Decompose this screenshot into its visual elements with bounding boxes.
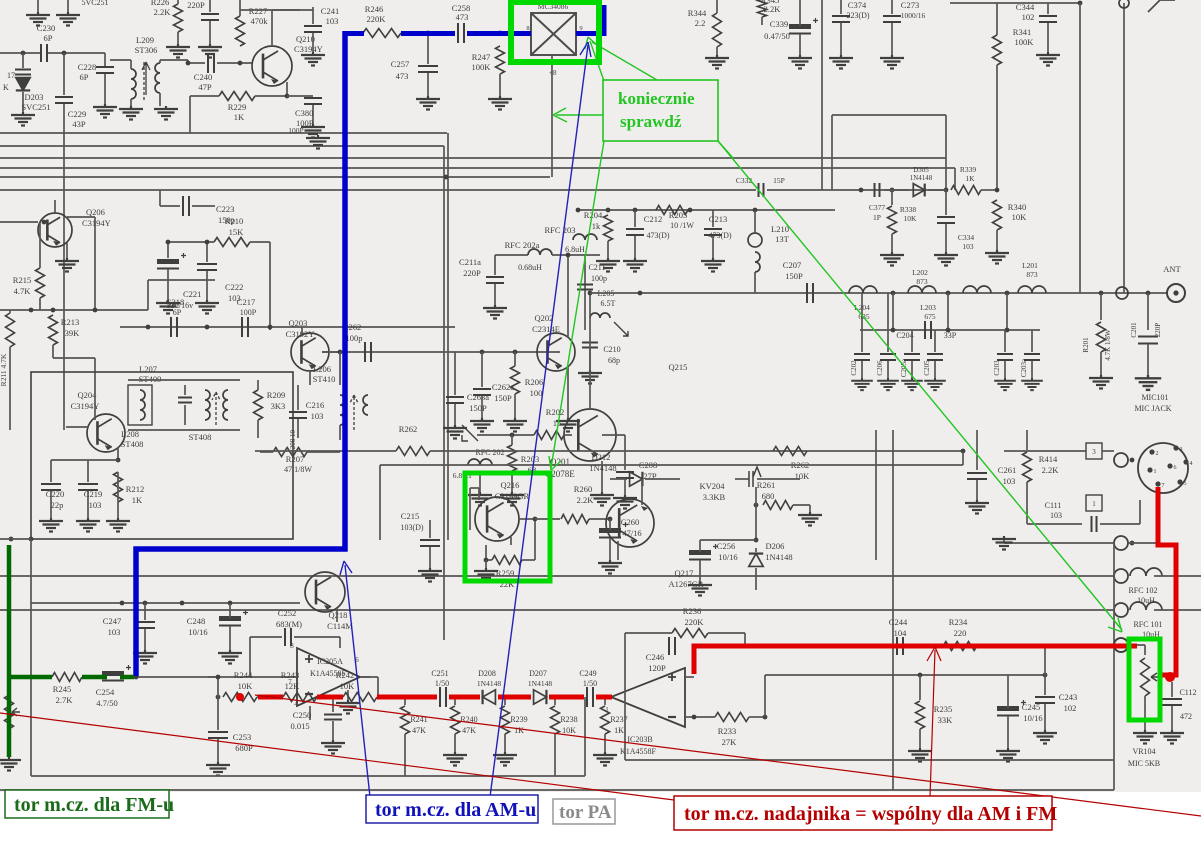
svg-text:473: 473 [396, 71, 409, 81]
junction ring1 [1130, 458, 1135, 463]
wire C256 top [699, 540, 701, 552]
svg-text:1N4148: 1N4148 [589, 463, 616, 473]
svg-text:102: 102 [1064, 703, 1077, 713]
varactor D203 diode [16, 78, 30, 91]
wire C260 down [609, 538, 611, 560]
junction ring2 [1130, 541, 1135, 546]
wire R235 top [919, 675, 921, 700]
inductor L209 primary [131, 69, 136, 99]
svg-text:R261: R261 [757, 480, 775, 490]
wire C257 down [427, 73, 429, 96]
label box AM [366, 795, 538, 823]
svg-text:C114M: C114M [327, 621, 353, 631]
ground C210 [578, 370, 602, 384]
svg-text:6P: 6P [44, 33, 53, 43]
wire R238 top [554, 697, 556, 705]
svg-text:MIC 5KB: MIC 5KB [1128, 759, 1160, 768]
inductor L206 coil2 [363, 395, 368, 415]
capacitor C258 [458, 23, 464, 43]
junction [205, 325, 210, 330]
resistor R262b [773, 447, 807, 456]
wire C248 top [229, 603, 231, 618]
wire C252 drop [249, 637, 251, 677]
wire bus6 (C332 net left) [0, 189, 756, 191]
connector ring3 [1114, 569, 1128, 583]
IC MC34086 bow-tie [531, 13, 576, 55]
svg-text:ST306: ST306 [135, 45, 158, 55]
wire R233 left [694, 716, 715, 718]
resistor VR104 [1141, 658, 1150, 696]
label box FM [5, 790, 169, 818]
ground R235 [908, 748, 932, 762]
svg-text:873: 873 [1026, 270, 1038, 279]
svg-text:ST408: ST408 [189, 432, 212, 442]
svg-text:150P: 150P [469, 403, 487, 413]
wire bus3 [0, 157, 946, 159]
svg-text:1K: 1K [132, 495, 143, 505]
capacitor C208 [616, 472, 634, 478]
svg-text:104: 104 [894, 628, 908, 638]
junction [1005, 291, 1010, 296]
wire Q216 base3 [469, 488, 471, 530]
wire C260 top [609, 519, 611, 530]
junction [743, 644, 748, 649]
capacitor C207 [807, 283, 813, 303]
svg-text:C212: C212 [644, 214, 662, 224]
svg-text:C256: C256 [717, 541, 735, 551]
wire D203 bottom [22, 92, 24, 112]
svg-text:C205a: C205a [900, 358, 908, 377]
ground R239 [493, 752, 517, 766]
wire R212 wires [117, 472, 119, 502]
junction bus5/V444 [444, 175, 449, 180]
resistor R203 [508, 445, 517, 471]
wire c5 [596, 696, 608, 698]
junction Q201 coll [588, 291, 593, 296]
ground R261 [798, 512, 822, 526]
capacitor C260 [599, 522, 628, 538]
wire R226 bottom [177, 32, 179, 44]
wire Q204 b2 [66, 426, 88, 428]
ground mic [992, 536, 1016, 550]
wire Q203 base up [301, 327, 303, 334]
svg-text:R340: R340 [1008, 202, 1026, 212]
svg-text:47P: 47P [198, 82, 212, 92]
svg-text:C334: C334 [958, 233, 975, 242]
svg-text:R212: R212 [126, 484, 144, 494]
wire R259 up [534, 519, 536, 560]
wire row576 [0, 575, 1114, 577]
capacitor C332 [759, 183, 764, 197]
inductor RFC202b [468, 459, 492, 465]
wire C202 down [861, 361, 863, 378]
wire R215 top [39, 222, 41, 268]
ground opamp [336, 700, 360, 714]
capacitor C248 [219, 610, 248, 626]
wire c3 [498, 696, 531, 698]
TX path red left drop [692, 644, 697, 675]
wire C243 drop [1044, 646, 1046, 675]
connector top x1124 [1119, 0, 1129, 8]
svg-text:472: 472 [1180, 712, 1192, 721]
wire R206 down [514, 394, 516, 418]
resistor R213 [49, 315, 58, 345]
svg-text:1P: 1P [873, 213, 881, 222]
svg-text:C257: C257 [391, 59, 409, 69]
svg-text:473: 473 [456, 12, 469, 22]
AM path blue top segment 2 [401, 31, 455, 36]
svg-text:ST410: ST410 [313, 374, 336, 384]
wire [307, 451, 340, 453]
wire C203a down [1031, 361, 1033, 378]
wire C339 top [799, 0, 801, 26]
ground 220P [198, 44, 222, 58]
ground C219 [76, 518, 100, 532]
wire C203 down [1004, 361, 1006, 378]
wire R210 right [250, 241, 270, 243]
capacitor C218 [171, 317, 177, 337]
wire C253 down [217, 739, 219, 762]
svg-text:R262: R262 [399, 424, 417, 434]
svg-text:103: 103 [326, 16, 339, 26]
transistor Q202 [537, 333, 575, 371]
op-amp IC205A [297, 648, 360, 706]
junction box edge2 [29, 537, 34, 542]
capacitor C203a [1024, 354, 1040, 360]
transistor Q217b [641, 506, 648, 511]
wire L209b [110, 59, 131, 61]
wire C213 top [712, 210, 714, 227]
green arrowhead left [553, 108, 567, 122]
wire R338 top [891, 190, 893, 205]
svg-text:L201: L201 [1022, 261, 1038, 270]
capacitor C210 [582, 343, 598, 348]
ground C220 [39, 518, 63, 532]
svg-text:C215: C215 [401, 511, 419, 521]
wire D305-R339 [928, 189, 946, 191]
trimmer arrow [462, 425, 478, 441]
wire R211 down [9, 347, 11, 430]
svg-text:2.2K: 2.2K [577, 495, 595, 505]
resistor R240 [451, 706, 460, 734]
svg-text:C261: C261 [998, 465, 1016, 475]
wire Q206 c down [94, 217, 96, 310]
junction [510, 433, 515, 438]
svg-text:R247: R247 [472, 52, 490, 62]
ground C339 [788, 55, 812, 69]
svg-text:100p: 100p [346, 333, 363, 343]
wire C273 top [891, 0, 893, 14]
wire C206 down [887, 361, 889, 378]
junction blue-green [134, 675, 139, 680]
svg-text:Q215: Q215 [669, 362, 688, 372]
svg-text:13T: 13T [775, 234, 790, 244]
trimmer RFC202 [614, 322, 628, 336]
junction [763, 715, 768, 720]
ground C243 [1033, 730, 1057, 744]
connector pin box 3 [1086, 443, 1102, 459]
svg-text:Q206: Q206 [86, 207, 105, 217]
label box TX [674, 796, 1052, 830]
wire C243 top [1044, 675, 1046, 695]
wire R203 top [511, 435, 513, 445]
junction [338, 350, 343, 355]
ground D203 [11, 112, 35, 126]
svg-text:KV204: KV204 [699, 481, 725, 491]
wire C202 top [861, 330, 863, 352]
capacitor C217 [242, 317, 248, 337]
svg-text:L202: L202 [912, 268, 928, 277]
inductor RFC101 [1130, 602, 1162, 610]
wire R259 gnd stub [485, 560, 487, 568]
svg-text:C273: C273 [901, 0, 919, 10]
svg-text:R227: R227 [249, 6, 267, 16]
resistor R233 [715, 713, 749, 722]
wire rfc101 right [1154, 609, 1201, 611]
svg-text:+8: +8 [549, 69, 557, 77]
svg-text:MIC101: MIC101 [1141, 393, 1168, 402]
svg-text:10uH: 10uH [1137, 596, 1155, 605]
wire R245-C254 [82, 676, 107, 678]
ground R226 [166, 44, 190, 58]
transistor Q216 [475, 497, 519, 541]
junction [1099, 291, 1104, 296]
wire C253 top [217, 697, 219, 730]
svg-text:470k: 470k [251, 16, 269, 26]
svg-text:R233: R233 [718, 726, 736, 736]
svg-text:39K: 39K [65, 328, 81, 338]
diode D207 [534, 690, 547, 704]
wire R340 bottom [996, 230, 998, 250]
diode D305 [913, 184, 924, 197]
svg-text:3.3KB: 3.3KB [703, 492, 726, 502]
svg-text:22p: 22p [51, 500, 64, 510]
svg-text:1N4148: 1N4148 [910, 174, 933, 182]
resistor R210 [214, 238, 250, 247]
wire C223 right [192, 205, 215, 207]
svg-text:1: 1 [605, 706, 609, 714]
resistor R244 [223, 693, 257, 702]
wire C202 tap2 [861, 293, 863, 330]
resistor R340 [993, 200, 1002, 230]
svg-text:47K: 47K [462, 726, 476, 735]
svg-text:223(D): 223(D) [846, 11, 869, 20]
svg-text:43P: 43P [72, 119, 86, 129]
wire -in [685, 716, 694, 718]
wire R259 right [522, 559, 535, 561]
wire vertical x1124 [1123, 3, 1125, 293]
capacitor C246 [669, 637, 675, 655]
svg-text:10 /1W: 10 /1W [670, 221, 694, 230]
MIC jack pin 5 [1177, 479, 1182, 484]
capacitor C254 (rot) [102, 665, 131, 681]
wire R345 bottom [761, 17, 763, 25]
svg-text:C248: C248 [187, 616, 205, 626]
resistor R204 [604, 215, 613, 241]
capacitor C201 [1138, 337, 1158, 344]
wire C256 row [700, 539, 756, 541]
junction R247 top [498, 31, 503, 36]
capacitor C220 [41, 484, 61, 490]
capacitor C374 [832, 16, 850, 22]
svg-text:C218: C218 [166, 297, 184, 307]
wire Q204 emitter [117, 447, 119, 460]
wire Q215b emitter [336, 608, 338, 622]
wire L210 bottom [754, 272, 756, 293]
ground C344 [1036, 52, 1060, 66]
svg-text:R235: R235 [934, 704, 952, 714]
wire C247 top [144, 603, 146, 620]
wire RFC202 row [477, 434, 500, 436]
svg-text:IC205A: IC205A [317, 657, 343, 666]
inductor L201 [1018, 286, 1046, 293]
wire C222 bottom [206, 271, 208, 300]
wire L203 tap [947, 293, 949, 330]
wire Q206 base [0, 221, 38, 223]
connector ANT line [1116, 287, 1128, 299]
svg-text:R210: R210 [225, 216, 243, 226]
wire fb drop [217, 677, 219, 697]
svg-text:8: 8 [526, 25, 529, 32]
wire R202-Q201 [564, 434, 572, 436]
wire C248 down [229, 626, 231, 650]
svg-text:2.7K: 2.7K [56, 695, 74, 705]
AM path blue main vertical [136, 31, 345, 676]
wire Q204 base [94, 358, 96, 420]
svg-text:R245: R245 [53, 684, 71, 694]
svg-text:10K: 10K [562, 726, 576, 735]
wire Q206 collector up [54, 200, 56, 213]
svg-text:C2314E: C2314E [532, 324, 560, 334]
ground C257 [416, 96, 440, 110]
wire R246-C257 [401, 32, 420, 34]
svg-text:Q210: Q210 [296, 34, 315, 44]
capacitor C203 [997, 354, 1013, 360]
wire L206 drop [339, 352, 341, 385]
capacitor C334 [937, 217, 955, 223]
resistor R242 [343, 693, 377, 702]
wire drop r [624, 697, 626, 760]
resistor R239 [501, 706, 510, 734]
svg-text:C213: C213 [709, 214, 727, 224]
resistor R206 [511, 366, 520, 394]
inductor L210 [755, 252, 760, 272]
svg-text:C229: C229 [68, 109, 86, 119]
wire C201 top [1147, 293, 1149, 330]
green leader to MC34086 b [592, 42, 657, 80]
trimmer wiper [12, 708, 20, 716]
wire out drop [377, 677, 379, 697]
resistor R234 [943, 642, 977, 651]
wire c4 [549, 696, 584, 698]
svg-text:C249: C249 [579, 669, 596, 678]
wire opamp out2 [208, 676, 218, 678]
svg-text:1K: 1K [614, 726, 624, 735]
svg-text:R229: R229 [228, 102, 246, 112]
svg-text:5: 5 [1184, 481, 1187, 487]
wire Q210 c2 [272, 9, 300, 11]
svg-text:C204: C204 [896, 331, 913, 340]
wire Q216 emitter [510, 537, 512, 545]
wire MC34086 pin8 [526, 33, 531, 35]
diode D208 [483, 690, 496, 704]
inductor L209 secondary [155, 63, 160, 93]
svg-text:150P: 150P [494, 393, 512, 403]
wire C215 down [429, 547, 431, 568]
svg-text:RFC 102: RFC 102 [1128, 586, 1157, 595]
red leader to R244 [0, 695, 1201, 816]
svg-text:VR104: VR104 [1132, 747, 1155, 756]
svg-text:R239: R239 [510, 715, 527, 724]
wire drop x963 [962, 451, 964, 465]
svg-text:tor PA: tor PA [559, 802, 612, 823]
wire row675 [765, 674, 1045, 676]
green leader left arrow [556, 114, 603, 116]
svg-text:C244: C244 [889, 617, 908, 627]
wire C212 top [634, 210, 636, 227]
resistor R209 [254, 390, 263, 420]
svg-text:15P: 15P [773, 176, 785, 185]
wire C261 top [976, 430, 978, 470]
wire R203 down [511, 471, 513, 492]
resistor R211 [6, 313, 15, 347]
MIC jack pin 1 [1147, 467, 1152, 472]
svg-text:220: 220 [954, 628, 967, 638]
wire C222 top [206, 242, 208, 262]
svg-text:C223: C223 [216, 204, 234, 214]
svg-text:10K: 10K [1012, 212, 1028, 222]
resistor R246 [363, 29, 401, 38]
junction [120, 601, 125, 606]
wire D206 down [755, 568, 757, 590]
wire R341 to junction [996, 65, 998, 190]
wire C112 down [1171, 706, 1173, 730]
ground R212 [106, 518, 130, 532]
svg-text:D212: D212 [592, 452, 611, 462]
svg-text:C241: C241 [321, 6, 339, 16]
svg-text:RFC 203: RFC 203 [545, 225, 576, 235]
wire bus4 [0, 167, 955, 169]
svg-text:Q217: Q217 [675, 568, 694, 578]
wire Q216 e2 [485, 545, 487, 560]
wire C252 drop2 [339, 637, 341, 648]
svg-text:C339: C339 [770, 19, 788, 29]
ground C248 [218, 650, 242, 664]
wire KV204 drop [755, 487, 757, 540]
wire C215 top [429, 520, 431, 538]
capacitor C241 [304, 26, 322, 32]
resistor R260 [561, 515, 589, 524]
ground R203 [500, 492, 524, 506]
TX path red wiper dot [1165, 672, 1175, 682]
wire C212 down [634, 236, 636, 258]
resistor R237 [601, 706, 610, 734]
wire Q210 emitter [286, 82, 288, 96]
highlight box MC34086 [511, 2, 599, 62]
wire pin3b [1102, 450, 1114, 452]
resistor R241 [401, 706, 410, 734]
ground Q201 [590, 492, 614, 506]
red arrowhead R234 [927, 647, 941, 661]
capacitor C111 [1092, 516, 1097, 532]
capacitor C245 [997, 700, 1026, 716]
svg-text:R201: R201 [1082, 337, 1090, 353]
junction R261 [754, 503, 759, 508]
inductor L207 coil a [205, 390, 210, 420]
junction R262 [961, 449, 966, 454]
wire MC34086 center tap [551, 55, 553, 177]
resistor R247 [496, 46, 505, 74]
